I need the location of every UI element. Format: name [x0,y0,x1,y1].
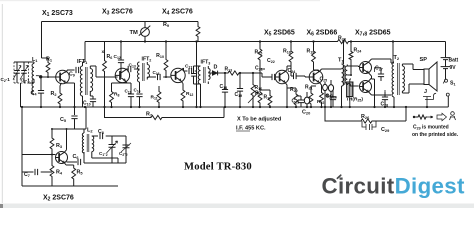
svg-text:C11: C11 [125,89,132,95]
svg-text:C3-1: C3-1 [21,78,31,84]
svg-text:R6: R6 [107,54,113,60]
svg-text:L2: L2 [87,128,93,134]
svg-text:R13: R13 [225,67,233,73]
svg-text:I.F. 455 KC.: I.F. 455 KC. [236,126,266,132]
svg-text:R3: R3 [56,143,63,149]
svg-text:X6 2SD66: X6 2SD66 [307,30,338,38]
svg-text:IFT2: IFT2 [142,57,152,63]
svg-text:C25: C25 [320,77,328,83]
svg-text:R1: R1 [46,57,53,63]
svg-text:C29: C29 [381,127,390,133]
svg-text:C9: C9 [69,72,75,78]
svg-text:R17: R17 [264,95,272,101]
svg-text:X1 2SC73: X1 2SC73 [42,10,73,18]
svg-text:R7: R7 [146,112,152,118]
svg-text:C4: C4 [31,91,38,97]
svg-text:C14: C14 [134,88,141,94]
svg-text:C16: C16 [153,70,160,76]
svg-text:IFT3: IFT3 [201,60,211,66]
svg-text:R4: R4 [56,170,63,176]
svg-text:on the printed side.: on the printed side. [412,132,459,138]
svg-text:C13: C13 [129,63,136,69]
svg-text:C29 is mounted: C29 is mounted [413,125,449,131]
svg-text:J: J [424,89,427,95]
svg-text:C12: C12 [114,54,121,60]
svg-text:R9: R9 [163,22,170,28]
svg-text:Batt: Batt [449,58,459,64]
svg-text:⊕C26: ⊕C26 [326,94,337,100]
svg-text:C24: C24 [288,68,297,74]
svg-text:R5: R5 [77,170,84,176]
svg-text:C19: C19 [235,92,243,98]
svg-text:X2 2SC76: X2 2SC76 [43,195,74,203]
svg-text:C20: C20 [302,110,310,116]
svg-text:R2: R2 [51,91,58,97]
svg-text:R10: R10 [156,53,164,59]
svg-text:TM: TM [130,30,139,36]
svg-text:CircuitDigest: CircuitDigest [322,174,466,199]
svg-text:R11: R11 [151,95,158,101]
svg-text:9V: 9V [450,65,457,71]
svg-text:R18: R18 [283,49,291,55]
svg-text:L1: L1 [32,57,38,63]
svg-text:C23: C23 [292,99,300,105]
svg-text:R12: R12 [186,91,193,97]
svg-text:R26: R26 [361,114,370,120]
svg-text:C5: C5 [60,117,67,123]
svg-text:C2-1: C2-1 [1,77,11,83]
svg-text:C18: C18 [220,84,228,90]
svg-text:R8: R8 [114,92,119,98]
svg-text:R15: R15 [255,50,263,56]
svg-text:T2: T2 [394,55,400,61]
svg-text:C27: C27 [375,66,383,72]
svg-text:R24: R24 [354,48,363,54]
svg-text:C2-2: C2-2 [119,151,128,157]
svg-text:SP: SP [420,57,428,63]
svg-text:C10: C10 [83,101,91,107]
svg-text:X3 2SC76: X3 2SC76 [102,9,133,17]
svg-text:C6: C6 [73,154,80,160]
svg-text:TH(R25): TH(R25) [346,97,363,103]
svg-text:X7,8 2SD65: X7,8 2SD65 [355,30,391,38]
svg-text:S1: S1 [450,81,456,87]
svg-text:Model TR-830: Model TR-830 [184,162,252,173]
svg-text:C8: C8 [98,129,104,135]
svg-text:X4 2SC76: X4 2SC76 [162,9,193,17]
svg-text:C7: C7 [24,172,30,178]
svg-text:R19: R19 [307,49,315,55]
svg-text:C1-2: C1-2 [99,151,108,157]
svg-text:C17: C17 [185,64,192,70]
svg-text:R22: R22 [317,99,324,105]
svg-text:D: D [214,65,218,71]
svg-text:C22: C22 [267,58,275,64]
svg-text:R23: R23 [338,36,346,42]
svg-text:X To be adjusted: X To be adjusted [237,117,282,123]
svg-text:X5 2SD65: X5 2SD65 [264,30,295,38]
